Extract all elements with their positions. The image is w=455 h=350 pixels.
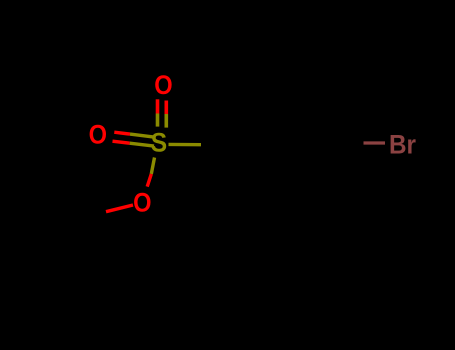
bond O3-C(quaternary), red half near O3 — [106, 205, 133, 212]
bond S-O3 (ester), red half near O3 — [147, 174, 151, 187]
svg-text:O: O — [89, 119, 107, 150]
bond O3-C(quaternary), black half near C (black on black) — [79, 212, 106, 219]
svg-text:Br: Br — [389, 128, 416, 159]
bond S-C1 (to ring), olive half near S — [169, 143, 202, 147]
bond S=O1 (vertical double bond), red halves near O1 — [158, 99, 167, 114]
bond C4-Br, black half near C4 — [339, 144, 362, 146]
benzene ring C1-C2-C3-C4-C5-C6 (carbon-carbon bonds, drawn black on black) — [239, 102, 339, 189]
bond S=O2 (left double bond), red halves near O2 — [113, 132, 131, 143]
bond S=O2 (left double bond), olive halves near S — [130, 134, 154, 146]
bond S-O3 (ester), olive half near S — [151, 158, 154, 175]
svg-text:O: O — [154, 69, 172, 100]
tert-butyl methyl bonds (black on black) — [32, 176, 92, 262]
bond S=O1 (vertical double bond), olive halves near S — [158, 114, 167, 128]
svg-text:S: S — [151, 127, 167, 158]
bond C4-Br, dark red half near Br — [364, 141, 386, 144]
svg-text:O: O — [133, 187, 151, 218]
bond S-C1 (to ring), black half near C1 — [201, 143, 239, 147]
benzene ring inner aromatic double-bond lines (black on black) — [246, 110, 332, 178]
